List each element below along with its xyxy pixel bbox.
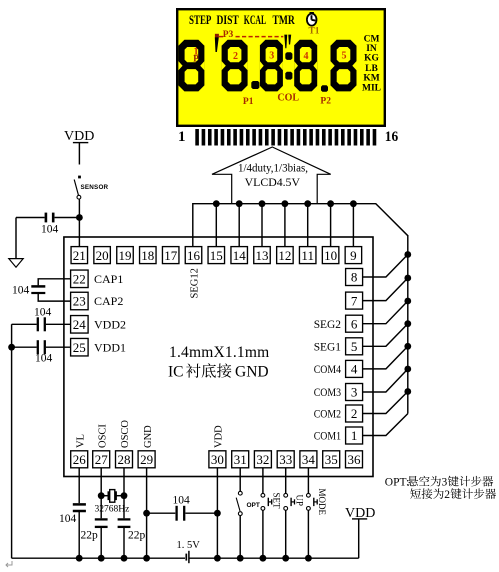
capacitor 104 (VDD2)	[12, 317, 71, 331]
svg-text:P2: P2	[320, 97, 331, 107]
svg-text:28: 28	[118, 452, 131, 467]
svg-text:26: 26	[73, 452, 87, 467]
pin 7	[346, 292, 363, 309]
pin labels VL OSCI OSCO GND VDD (rotated)	[75, 420, 224, 448]
svg-text:12: 12	[278, 248, 291, 263]
pin 29	[138, 451, 155, 468]
pin 3	[346, 384, 363, 401]
svg-text:19: 19	[119, 248, 132, 263]
junction node VDD-C104	[214, 510, 221, 517]
svg-text:KM: KM	[363, 74, 379, 84]
svg-text:1.4mmX1.1mm: 1.4mmX1.1mm	[169, 344, 269, 361]
svg-text:VDD2: VDD2	[94, 318, 126, 332]
junction node sensor/C104	[76, 214, 83, 221]
IC body U1	[64, 237, 373, 477]
wire pin 28 (OSCO)	[123, 468, 125, 558]
pin 13	[254, 247, 271, 264]
svg-text:24: 24	[73, 317, 87, 332]
pin 22	[71, 270, 89, 288]
svg-text:13: 13	[256, 248, 269, 263]
paragraph return mark	[6, 561, 12, 567]
svg-text:P3: P3	[223, 30, 234, 40]
svg-text:15: 15	[210, 248, 223, 263]
svg-text:GND: GND	[235, 364, 269, 381]
svg-text:36: 36	[348, 452, 362, 467]
LCD 7-segment digit 4	[294, 40, 317, 92]
ground symbol	[9, 218, 23, 268]
VDD power symbol (keys)	[345, 506, 375, 558]
MODE switch S4	[307, 468, 318, 558]
pin 1	[346, 427, 363, 444]
svg-text:104: 104	[35, 353, 53, 365]
svg-text:SEG1: SEG1	[314, 340, 341, 354]
svg-text:1/4duty,1/3bias,: 1/4duty,1/3bias,	[238, 163, 308, 175]
svg-text:6: 6	[351, 316, 358, 331]
pin 14	[231, 247, 248, 264]
bus drops to pins 15-9	[216, 204, 353, 247]
pin 23	[71, 292, 89, 310]
svg-text:104: 104	[173, 495, 191, 507]
bottom rail junction dots	[76, 555, 312, 562]
svg-text:DIST: DIST	[217, 13, 240, 27]
bus junction dots	[213, 200, 357, 207]
svg-text:18: 18	[141, 248, 154, 263]
LCD double-quote segment	[284, 35, 291, 49]
svg-text:VDD: VDD	[214, 425, 225, 448]
svg-text:SEG12: SEG12	[190, 268, 201, 298]
svg-text:COM1: COM1	[314, 429, 341, 443]
svg-text:16: 16	[187, 248, 201, 263]
wires pins 8..1 to rail	[363, 255, 408, 436]
LCD label P3 and dashed line	[219, 30, 283, 40]
pin 25	[71, 338, 89, 356]
svg-text:4: 4	[304, 51, 309, 62]
svg-text:LB: LB	[365, 64, 378, 74]
pin 34	[300, 451, 317, 468]
svg-text:5: 5	[351, 339, 358, 354]
LCD 7-segment digit 5	[331, 40, 357, 92]
LCD 7-segment digit 2	[222, 40, 248, 92]
LCD zebra connector bars	[195, 129, 376, 146]
battery 1.5V	[186, 551, 189, 563]
LCD red numerals 1-5 and P	[193, 47, 346, 64]
capacitor 104 (VDD-GND)	[147, 506, 218, 521]
svg-text:2: 2	[444, 489, 450, 501]
svg-text:1. 5V: 1. 5V	[177, 540, 201, 551]
svg-text:29: 29	[140, 452, 153, 467]
right vertical rail	[407, 235, 409, 414]
OPT note line 1	[385, 476, 493, 489]
svg-text:16: 16	[385, 129, 399, 145]
svg-text:3: 3	[442, 477, 448, 489]
svg-text:22p: 22p	[81, 530, 99, 542]
wire pin 27 (OSCI)	[100, 468, 102, 558]
svg-text:T1: T1	[308, 27, 319, 37]
junction node VDD1 rail	[8, 344, 15, 351]
pin 18	[140, 247, 157, 264]
svg-text:10: 10	[324, 248, 337, 263]
svg-text:17: 17	[164, 248, 178, 263]
svg-text:MIL: MIL	[362, 84, 381, 94]
LCD 7-segment digit 3	[260, 40, 283, 92]
pin 27	[93, 451, 110, 468]
junction node GND-C104	[143, 510, 150, 517]
svg-text:OPT:: OPT:	[385, 477, 409, 489]
bottom ground rail	[12, 557, 359, 559]
svg-text:SEG2: SEG2	[314, 317, 341, 331]
svg-text:104: 104	[59, 513, 77, 525]
sensor switch	[74, 176, 81, 200]
svg-text:35: 35	[325, 452, 338, 467]
svg-text:1: 1	[178, 129, 186, 145]
svg-text:SET: SET	[272, 493, 282, 510]
svg-text:27: 27	[95, 452, 109, 467]
capacitor 22p (OSCI)	[95, 519, 108, 527]
svg-text:9: 9	[350, 248, 357, 263]
pin 17	[162, 247, 179, 264]
left ground rail	[11, 324, 13, 558]
svg-text:KCAL: KCAL	[244, 13, 266, 27]
svg-text:SENSOR: SENSOR	[81, 184, 109, 191]
svg-text:104: 104	[12, 285, 30, 297]
pin labels SEG2 SEG1 COM4 COM3 COM2 COM1	[314, 317, 341, 443]
LCD annunciators STEP DIST KCAL TMR	[189, 13, 296, 27]
crystal Y1 32768Hz	[101, 490, 124, 503]
svg-text:CAP2: CAP2	[94, 294, 123, 308]
svg-text:OPT: OPT	[247, 502, 260, 509]
LCD colon	[285, 52, 292, 79]
pin 11	[299, 247, 316, 264]
svg-text:104: 104	[34, 307, 52, 319]
svg-text:IN: IN	[366, 44, 377, 54]
LCD decimal point 2	[321, 85, 328, 92]
svg-text:VDD: VDD	[64, 129, 94, 144]
svg-text:CAP1: CAP1	[94, 272, 123, 286]
LCD unit labels CM IN KG LB KM MIL	[362, 35, 381, 94]
LCD panel	[177, 9, 385, 126]
svg-text:32: 32	[256, 452, 269, 467]
pin 10	[322, 247, 339, 264]
pin 33	[277, 451, 294, 468]
pin 8	[346, 269, 363, 286]
svg-text:VDD1: VDD1	[94, 340, 126, 354]
LCD bus wire	[193, 204, 408, 247]
wire VDD to switch	[78, 143, 80, 165]
svg-text:30: 30	[211, 452, 224, 467]
svg-text:STEP: STEP	[189, 13, 212, 27]
pin 2	[346, 405, 363, 422]
junction node OSCO-crystal	[121, 492, 128, 499]
svg-text:1: 1	[351, 428, 358, 443]
svg-text:4: 4	[351, 362, 358, 377]
svg-text:31: 31	[234, 452, 247, 467]
svg-text:VLCD4.5V: VLCD4.5V	[245, 175, 301, 189]
svg-text:34: 34	[302, 452, 316, 467]
pin 24	[71, 316, 89, 334]
capacitor 104 (CAP1-CAP2)	[31, 279, 70, 301]
pin 32	[254, 451, 271, 468]
pin 4	[346, 360, 363, 377]
svg-text:23: 23	[73, 294, 86, 309]
svg-text:14: 14	[233, 248, 247, 263]
pin 36	[346, 451, 363, 468]
SET switch S2	[261, 468, 272, 558]
pin 19	[117, 247, 134, 264]
pin 16	[185, 247, 202, 264]
LCD apostrophe segment	[215, 34, 219, 52]
svg-text:COM4: COM4	[314, 362, 341, 376]
svg-text:COM3: COM3	[314, 385, 341, 399]
svg-text:MODE: MODE	[317, 489, 327, 516]
svg-text:3: 3	[269, 51, 274, 62]
pin 28	[116, 451, 133, 468]
pin 26	[71, 451, 88, 468]
svg-text:5: 5	[342, 51, 347, 62]
pin 6	[346, 315, 363, 332]
svg-text:VL: VL	[75, 434, 86, 448]
svg-text:UP: UP	[294, 495, 304, 507]
pin 9	[345, 247, 362, 264]
pin 31	[232, 451, 249, 468]
svg-text:P: P	[193, 54, 199, 64]
svg-text:104: 104	[41, 224, 59, 236]
wire pin 26 (VL)	[78, 468, 80, 558]
svg-text:7: 7	[351, 293, 358, 308]
svg-text:8: 8	[351, 270, 358, 285]
svg-text:33: 33	[279, 452, 292, 467]
svg-text:3: 3	[351, 385, 358, 400]
svg-text:GND: GND	[143, 425, 154, 448]
svg-text:2: 2	[233, 51, 238, 62]
svg-text:COM2: COM2	[314, 407, 341, 421]
OPT switch S1	[236, 468, 242, 558]
wire pin 30 (VDD)	[216, 468, 218, 558]
svg-text:22: 22	[73, 272, 86, 287]
arrow to LCD with duty/bias note	[212, 147, 331, 203]
right rail junction dots	[404, 251, 411, 395]
capacitor 104 (VDD1)	[12, 340, 71, 354]
svg-text:20: 20	[96, 248, 109, 263]
pin 30	[209, 451, 226, 468]
OPT note line 2	[410, 488, 496, 501]
pin 35	[323, 451, 340, 468]
LCD 7-segment digit 1	[178, 40, 204, 92]
junction node OSCI-crystal	[98, 492, 105, 499]
wire pin 29 (GND)	[146, 468, 148, 558]
svg-text:TMR: TMR	[273, 13, 296, 27]
capacitor 104 (sensor debounce)	[16, 213, 77, 223]
pin 5	[346, 338, 363, 355]
svg-text:25: 25	[73, 340, 86, 355]
svg-text:21: 21	[73, 248, 86, 263]
VDD power symbol (sensor)	[64, 129, 94, 144]
svg-text:OSCO: OSCO	[120, 420, 131, 448]
svg-text:P1: P1	[243, 97, 254, 107]
svg-text:2: 2	[351, 406, 358, 421]
svg-text:22p: 22p	[128, 530, 146, 542]
pin 20	[94, 247, 111, 264]
svg-text:32768Hz: 32768Hz	[95, 505, 130, 515]
capacitor 104 (VL)	[73, 504, 86, 511]
capacitor 22p (OSCO)	[118, 519, 131, 527]
pin 12	[277, 247, 294, 264]
svg-text:KG: KG	[364, 54, 379, 64]
svg-text:OSCI: OSCI	[97, 424, 108, 448]
svg-text:IC: IC	[168, 364, 184, 381]
wire switch to pin 21	[78, 199, 80, 246]
pin 15	[208, 247, 225, 264]
LCD clock icon	[306, 12, 317, 27]
pin 21	[71, 247, 88, 264]
svg-text:COL: COL	[277, 93, 299, 104]
IC substrate note IC衬底接GND	[168, 363, 269, 380]
pin labels CAP1 CAP2 VDD2 VDD1	[94, 272, 126, 354]
LCD decimal point 1	[251, 81, 259, 89]
svg-text:11: 11	[301, 248, 314, 263]
UP switch S3	[284, 468, 295, 558]
